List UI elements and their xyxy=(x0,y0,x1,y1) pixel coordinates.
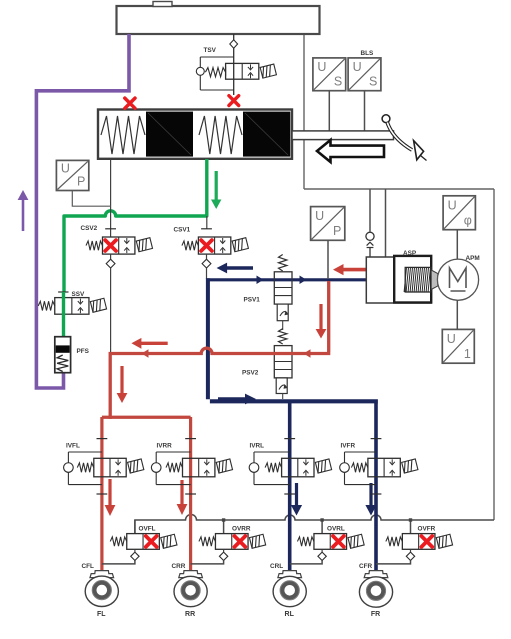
red drop to IVRR / wheel RR xyxy=(189,417,192,571)
valve OVRL xyxy=(297,534,364,550)
pressure sensor U/P (pump circuit) xyxy=(311,207,345,241)
pedal stroke curved arrow xyxy=(382,115,426,161)
red X: MC primary compensation port closed xyxy=(125,98,135,108)
svg-text:PFS: PFS xyxy=(77,348,90,355)
svg-text:FR: FR xyxy=(371,611,380,618)
wire: motor to U/1 xyxy=(456,300,458,329)
pump motor APM xyxy=(437,259,478,300)
wire: U/P sensor to MC primary line xyxy=(72,191,110,207)
svg-text:TSV: TSV xyxy=(204,47,217,54)
red flow arrow down to front manifold xyxy=(120,366,123,394)
valve IVRL xyxy=(249,439,331,494)
wire: OVRR to caliper line xyxy=(191,549,224,564)
svg-text:P: P xyxy=(333,224,341,238)
svg-text:IVFR: IVFR xyxy=(341,443,356,450)
wire: PSV1 to PSV2 xyxy=(282,321,284,330)
orifice below OVRL xyxy=(318,552,326,560)
brake caliper/wheel RL xyxy=(273,571,306,607)
svg-text:U: U xyxy=(315,209,324,223)
wire: OVFR to caliper line xyxy=(376,549,411,564)
navy flow arrow down (FR) xyxy=(369,483,372,506)
svg-text:S: S xyxy=(369,75,377,89)
pump ASP xyxy=(366,256,438,303)
svg-text:APM: APM xyxy=(466,255,480,262)
svg-text:FL: FL xyxy=(97,611,106,618)
svg-text:U: U xyxy=(61,161,70,175)
brake light switch sensor U/S (BLS) xyxy=(348,58,381,91)
wire: U/P to pump outlet node xyxy=(327,240,329,279)
wire: pump suction lines from return line xyxy=(370,189,386,257)
orifice below CSV2 xyxy=(106,259,115,268)
svg-text:CSV1: CSV1 xyxy=(174,227,191,234)
valve PSV1 xyxy=(274,255,292,321)
wire: reservoir to TSV / MC secondary port xyxy=(233,34,235,95)
brake caliper/wheel FL xyxy=(85,571,118,607)
brake caliper/wheel FR xyxy=(359,571,392,608)
wire: OVFL to caliper line xyxy=(102,549,135,564)
purple flow arrow up xyxy=(18,190,29,231)
valve CSV1 xyxy=(182,229,249,254)
red drop to IVFL / wheel FL xyxy=(100,417,103,571)
valve IVRR xyxy=(151,439,232,494)
valve OVFL xyxy=(110,534,177,550)
MC spring secondary xyxy=(199,116,242,154)
red pump output circuit xyxy=(110,281,330,417)
navy flow mark on suction line x=303 xyxy=(300,276,307,285)
svg-text:U: U xyxy=(353,60,362,74)
green flow arrow down xyxy=(211,171,221,209)
wire: MC primary output down to CSV2 xyxy=(110,159,112,237)
svg-text:CFL: CFL xyxy=(82,563,95,570)
wire: return riser OVRR xyxy=(222,518,225,533)
wire: BLS sensor to push rod xyxy=(364,91,366,131)
svg-text:U: U xyxy=(317,60,326,74)
red front manifold xyxy=(102,416,191,419)
svg-text:CFR: CFR xyxy=(359,563,373,570)
svg-text:PSV2: PSV2 xyxy=(242,370,259,377)
svg-text:CSV2: CSV2 xyxy=(81,225,98,232)
navy flow arrow (into CSV1) xyxy=(217,263,253,274)
svg-text:IVRL: IVRL xyxy=(250,443,265,450)
svg-text:CRR: CRR xyxy=(172,563,186,570)
check valve ball on suction line xyxy=(366,232,374,247)
svg-text:IVRR: IVRR xyxy=(157,443,173,450)
push rod xyxy=(292,131,394,140)
svg-text:IVFL: IVFL xyxy=(66,443,80,450)
brake caliper/wheel RR xyxy=(174,571,207,607)
motor current sensor U/1 xyxy=(442,329,474,363)
wire: OVRL to caliper line xyxy=(290,549,322,564)
valve IVFR xyxy=(340,439,418,494)
svg-text:S: S xyxy=(334,75,342,89)
reservoir xyxy=(117,2,320,35)
motor angle sensor U/phi xyxy=(443,196,475,230)
red flow arrow left above supply line xyxy=(140,342,167,345)
red X: TSV port closed xyxy=(229,96,239,106)
pedal force big left arrow xyxy=(317,140,384,162)
MC piston secondary xyxy=(243,112,290,157)
pressure sensor U/P (master cylinder) xyxy=(56,160,88,190)
brake pedal sensors U/S xyxy=(313,58,346,91)
valve IVFL xyxy=(64,439,144,494)
wire: U/S sensor to push rod xyxy=(328,91,330,131)
svg-text:OVFR: OVFR xyxy=(418,526,436,533)
red flow arrow from pump (left) xyxy=(343,268,367,272)
MC spring primary xyxy=(101,116,145,154)
svg-text:RR: RR xyxy=(185,611,195,618)
wire: CSV2 to red supply node xyxy=(110,254,112,352)
svg-text:U: U xyxy=(448,198,457,212)
master cylinder MC xyxy=(98,110,292,159)
pre-charge accumulator PFS xyxy=(55,337,71,373)
navy drop to IVFR xyxy=(374,403,378,571)
valve OVRR xyxy=(199,534,266,550)
svg-text:OVRR: OVRR xyxy=(232,526,251,533)
MC piston primary xyxy=(146,112,193,157)
svg-text:1: 1 xyxy=(464,347,471,361)
orifice below CSV1 xyxy=(202,259,211,268)
red flow mark on supply line x=307 xyxy=(304,349,311,358)
navy flow mark on suction line x=260 xyxy=(257,276,264,285)
svg-text:RL: RL xyxy=(285,611,295,618)
wire: low-pressure return line y=520 from right border to OVFL xyxy=(135,515,494,534)
wire: U/phi to motor xyxy=(456,230,458,259)
wire: green SSV to PFS xyxy=(62,292,65,344)
valve OVFR xyxy=(386,534,453,550)
valve SSV xyxy=(38,292,106,314)
svg-text:P: P xyxy=(77,174,85,188)
red flow arrow down under IVFL xyxy=(108,479,111,506)
red flow mark on supply line x=145 xyxy=(142,349,149,358)
orifice below OVFL xyxy=(131,552,139,560)
svg-text:ASP: ASP xyxy=(403,250,417,257)
valve PSV2 xyxy=(274,329,292,394)
check valve above TSV xyxy=(230,40,238,48)
wire: green stub to CSV1 xyxy=(206,216,208,229)
svg-text:U: U xyxy=(447,332,456,346)
red flow arrow down under IVRR xyxy=(180,480,183,505)
orifice below OVRR xyxy=(219,552,227,560)
orifice below OVFR xyxy=(406,552,414,560)
svg-text:CRL: CRL xyxy=(270,563,283,570)
svg-text:φ: φ xyxy=(464,214,472,228)
valve CSV2 xyxy=(86,229,153,254)
svg-text:SSV: SSV xyxy=(72,291,86,298)
wire: return riser OVFL xyxy=(134,520,136,534)
navy flow arrow down (RL) xyxy=(295,483,298,506)
svg-text:BLS: BLS xyxy=(361,50,375,57)
svg-text:OVRL: OVRL xyxy=(327,526,345,533)
wire: green MC secondary output to SSV xyxy=(64,159,207,292)
wire: purple reservoir suction path xyxy=(36,34,129,388)
navy flow arrow right on manifold xyxy=(218,394,256,405)
svg-text:OVFL: OVFL xyxy=(139,526,156,533)
red flow arrow down beside pump line xyxy=(319,304,322,330)
valve TSV xyxy=(196,57,276,90)
svg-text:PSV1: PSV1 xyxy=(244,297,261,304)
wire: return riser OVFR xyxy=(409,518,412,533)
navy secondary circuit: CSV1 node to pump inlet, down to rear manifold xyxy=(206,278,378,403)
wire: CSV1 to navy node xyxy=(206,254,208,259)
wire: return riser OVRL xyxy=(320,518,323,533)
wire: PSV2 to navy manifold xyxy=(282,394,284,400)
navy drop to IVRL xyxy=(288,403,292,571)
enclosure HCU boundary (reservoir return frame) xyxy=(304,33,494,520)
